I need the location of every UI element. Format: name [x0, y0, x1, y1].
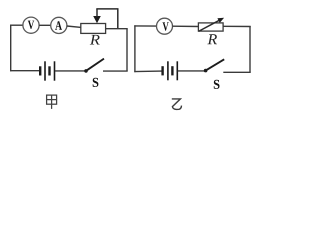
label R1	[90, 35, 100, 45]
wire left vertical	[10, 25, 12, 72]
battery B2 plate tall 1	[167, 61, 169, 80]
battery B1 plate thick 1	[39, 66, 41, 75]
wire V2 to rheostat R2	[172, 25, 199, 27]
battery B1 plate tall 2	[54, 61, 56, 80]
wire right vertical	[126, 29, 128, 71]
switch S2 fixed contact wire	[223, 71, 250, 73]
slider wire vertical	[117, 9, 119, 29]
battery B2 plate thick 1	[161, 66, 163, 75]
wire top-left segment	[134, 25, 156, 27]
wire battery B1 to switch S1	[55, 70, 85, 72]
wire V1 to A1	[39, 24, 51, 26]
wire battery B2 to switch S2	[178, 70, 205, 72]
switch S2 pivot dot	[204, 69, 208, 73]
wire left vertical	[134, 25, 136, 72]
wire right vertical	[249, 26, 251, 72]
wire top-left segment	[10, 24, 23, 26]
switch S2 lever	[207, 59, 225, 70]
wire rheostat R1 to right corner	[106, 28, 128, 30]
label jia	[47, 95, 57, 109]
rheostat R2 body	[198, 23, 223, 31]
wire A1 to rheostat R1	[67, 26, 82, 27]
label yi	[172, 99, 182, 110]
label S2	[214, 80, 220, 89]
voltmeter V1 circle	[23, 17, 39, 33]
voltmeter V1 letter	[28, 21, 34, 29]
label S1	[93, 78, 99, 87]
voltmeter V2 letter	[163, 22, 169, 30]
wire bottom-left to battery	[134, 70, 161, 73]
battery B2 plate thick 2	[171, 66, 173, 75]
rheostat R2 arrowhead	[217, 18, 224, 23]
switch S1 fixed contact wire	[103, 70, 128, 72]
ammeter A1 letter	[55, 21, 62, 29]
slider wire horizontal	[96, 8, 118, 10]
wire bottom-left to battery	[10, 70, 39, 72]
ammeter A1 circle	[51, 17, 67, 33]
wire rheostat R2 to right corner	[223, 25, 251, 27]
rheostat R1 body	[81, 24, 106, 34]
battery B1 plate thick 2	[48, 66, 50, 75]
voltmeter V2 circle	[157, 18, 173, 34]
switch S1 pivot dot	[84, 69, 88, 73]
battery B1 plate tall 1	[44, 61, 46, 80]
switch S1 lever	[87, 59, 104, 71]
rheostat R2 diagonal arrow shaft	[199, 20, 221, 32]
rheostat R1 slider arrowhead	[93, 16, 101, 23]
label R2	[207, 34, 217, 44]
rheostat R1 slider stem	[96, 9, 98, 17]
battery B2 plate tall 2	[176, 61, 178, 80]
